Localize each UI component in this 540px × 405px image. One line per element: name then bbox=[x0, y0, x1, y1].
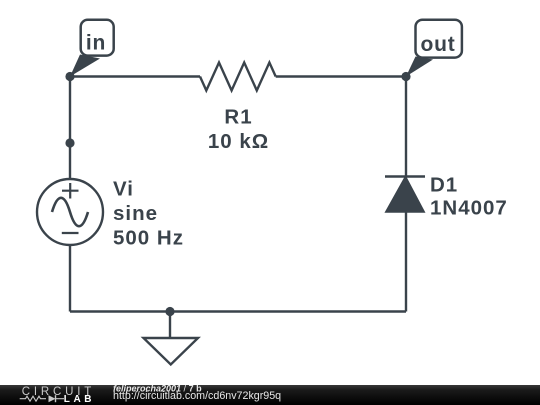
resistor R1 bbox=[200, 63, 276, 91]
node in label text bbox=[86, 32, 106, 55]
value 10 kOhm bbox=[208, 130, 269, 153]
diode D1 cathode bar bbox=[385, 175, 425, 177]
svg-text:Vi: Vi bbox=[113, 178, 134, 201]
label R1 bbox=[224, 106, 252, 129]
wire diode D1 to bottom right corner bbox=[405, 212, 407, 312]
node on left wire junction dot bbox=[65, 138, 74, 147]
Vi minus sign bbox=[62, 232, 79, 234]
CircuitLab logo mini diode bbox=[49, 395, 65, 402]
value 500 Hz bbox=[113, 227, 184, 250]
value 1N4007 bbox=[430, 197, 508, 220]
svg-text:http://circuitlab.com/cd6nv72k: http://circuitlab.com/cd6nv72kgr95q bbox=[113, 390, 281, 402]
CircuitLab logo wordmark CIRCUIT bbox=[22, 386, 95, 398]
ground symbol bbox=[144, 338, 199, 365]
label Vi bbox=[113, 178, 134, 201]
ground node junction dot bbox=[165, 307, 174, 316]
svg-text:sine: sine bbox=[113, 202, 158, 225]
footer author line bbox=[113, 383, 202, 393]
footer url line bbox=[113, 390, 281, 402]
node out flag pointer bbox=[406, 57, 433, 77]
svg-text:D1: D1 bbox=[430, 174, 458, 197]
value sine bbox=[113, 202, 158, 225]
svg-text:in: in bbox=[86, 32, 106, 55]
wire bottom bbox=[70, 310, 406, 312]
wire resistor to out node bbox=[276, 75, 406, 77]
Vi sine wave bbox=[52, 198, 88, 226]
node in flag box bbox=[81, 20, 114, 56]
svg-text:1N4007: 1N4007 bbox=[430, 197, 508, 220]
ground stub wire bbox=[169, 312, 171, 339]
node out label text bbox=[420, 33, 455, 56]
svg-text:R1: R1 bbox=[224, 106, 252, 129]
Vi plus sign bbox=[62, 183, 79, 199]
label D1 bbox=[430, 174, 458, 197]
wire left vertical (in node to source Vi) bbox=[69, 77, 71, 180]
svg-text:500 Hz: 500 Hz bbox=[113, 227, 184, 250]
node out flag box bbox=[416, 20, 462, 58]
node out junction dot bbox=[401, 72, 410, 81]
wire top (in node to out node with resistor R1) bbox=[70, 75, 200, 77]
svg-text:10 kΩ: 10 kΩ bbox=[208, 130, 269, 153]
wire right vertical (out node to diode D1) bbox=[405, 77, 407, 177]
svg-text:LAB: LAB bbox=[64, 394, 95, 405]
svg-text:out: out bbox=[420, 33, 455, 56]
node in flag pointer bbox=[70, 55, 100, 77]
node in junction dot bbox=[65, 72, 74, 81]
wire source Vi to bottom left corner bbox=[69, 245, 71, 312]
voltage source Vi circle bbox=[37, 179, 103, 245]
CircuitLab logo mini resistor bbox=[20, 396, 46, 401]
diode D1 triangle bbox=[387, 178, 424, 212]
footer bar bbox=[0, 385, 540, 405]
CircuitLab logo wordmark LAB bbox=[64, 394, 95, 405]
